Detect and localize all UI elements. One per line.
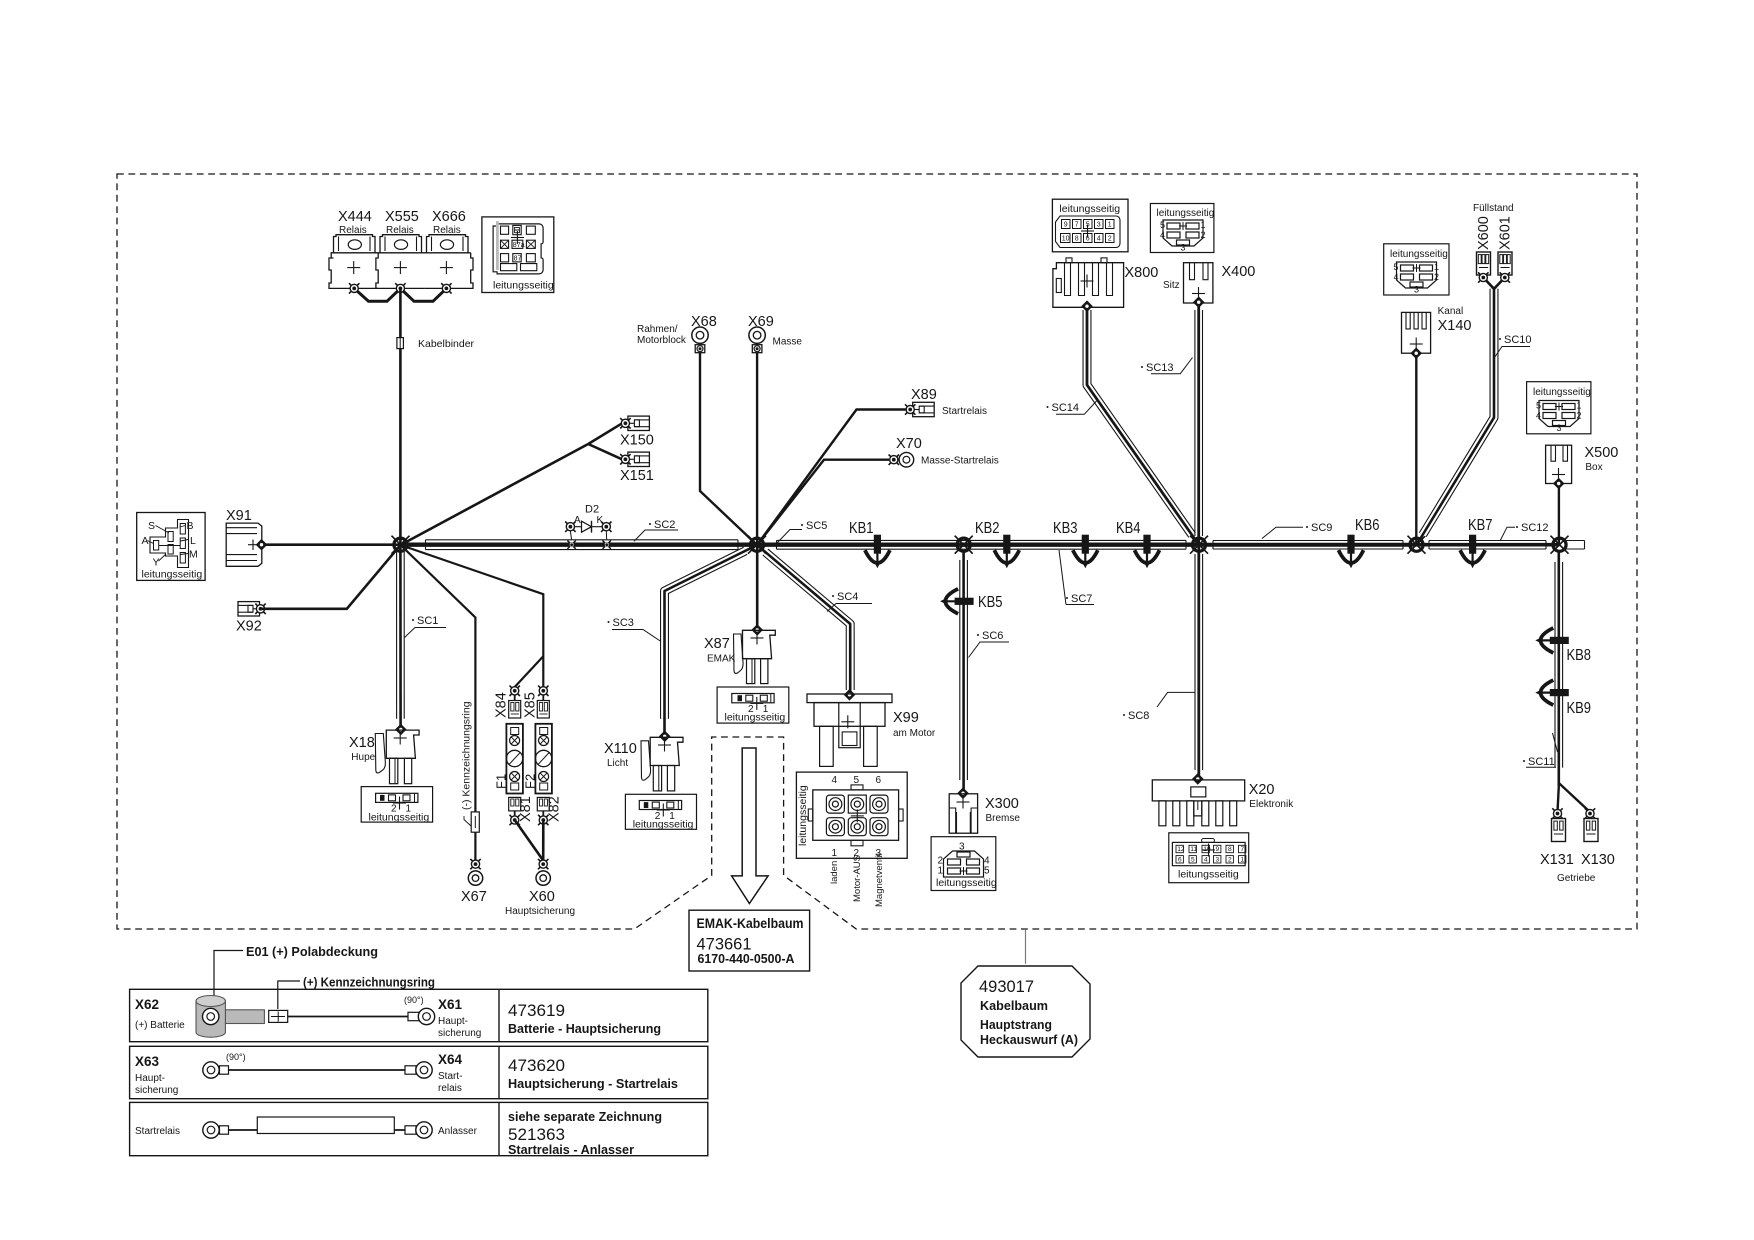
wire J2 to X69 [756, 353, 758, 546]
svg-text:5: 5 [854, 775, 860, 786]
wire X62 to X61 [288, 1016, 411, 1018]
ring terminal Anlasser [405, 1122, 432, 1138]
svg-text:2: 2 [1228, 857, 1232, 864]
EMAK-Kabelbaum label box [689, 910, 810, 971]
table row 1 box [130, 989, 708, 1041]
svg-text:SC11: SC11 [1528, 756, 1555, 768]
label Kennzeichnungsring [278, 976, 435, 1010]
SC4 cable J2 to X99 [757, 545, 850, 694]
svg-text:4: 4 [1160, 230, 1165, 240]
svg-text:9: 9 [1216, 846, 1220, 853]
svg-text:1: 1 [1241, 857, 1245, 864]
svg-text:K: K [597, 515, 604, 526]
kennzeichnungsring sleeve row1 [269, 1010, 288, 1022]
svg-text:X500: X500 [1585, 445, 1619, 461]
svg-text:A: A [574, 515, 581, 526]
SC14 cable X800 to J4 [1087, 306, 1199, 545]
X500 pin box leitungsseitig [1527, 382, 1591, 434]
svg-text:X62: X62 [135, 997, 159, 1012]
wire Y to X601 [1494, 278, 1505, 289]
relay socket X666 [425, 235, 474, 289]
svg-text:KB8: KB8 [1567, 647, 1592, 664]
SC1 cable down from J1 [397, 545, 405, 730]
bolt under X444 [349, 283, 359, 293]
main bus junction1-junction2 outline [426, 540, 739, 550]
SC3 cable J2 to X110 [665, 545, 758, 736]
cable tie KB6 [1339, 535, 1364, 569]
connector X131 [1552, 808, 1562, 818]
connector X140 Kanal [1402, 312, 1431, 353]
svg-text:X87: X87 [704, 636, 730, 652]
svg-text:X99: X99 [893, 710, 919, 726]
svg-text:Anlasser: Anlasser [438, 1126, 478, 1137]
svg-text:sicherung: sicherung [438, 1028, 481, 1039]
connector X18 [375, 724, 419, 784]
connector X81 [509, 797, 521, 816]
wire X140 to J5 [1415, 353, 1417, 545]
svg-text:Startrelais: Startrelais [135, 1126, 180, 1137]
svg-text:SC10: SC10 [1504, 334, 1532, 346]
svg-text:X400: X400 [1222, 264, 1256, 280]
svg-text:Masse-Startrelais: Masse-Startrelais [921, 456, 999, 467]
svg-text:5: 5 [1160, 220, 1165, 230]
svg-text:F2: F2 [523, 774, 538, 789]
svg-text:Startrelais: Startrelais [942, 406, 987, 417]
connector X20 Elektronik [1152, 773, 1244, 826]
svg-text:Start-: Start- [438, 1071, 462, 1082]
svg-text:Box: Box [1585, 462, 1602, 473]
connector X84 [509, 695, 521, 718]
splice mark left of D2 [567, 541, 575, 549]
svg-text:X150: X150 [620, 433, 654, 449]
svg-text:laden: laden [829, 861, 840, 884]
svg-text:KB4: KB4 [1116, 520, 1141, 537]
svg-text:2: 2 [1434, 272, 1439, 282]
svg-text:Sitz: Sitz [1163, 280, 1180, 291]
svg-text:4: 4 [832, 775, 838, 786]
svg-text:X601: X601 [1498, 216, 1514, 250]
svg-text:X68: X68 [691, 314, 717, 330]
bus thick J5-J6 [1417, 543, 1560, 547]
svg-text:X81: X81 [518, 796, 534, 822]
X91 pinout box leitungsseitig [137, 513, 205, 581]
svg-text:5: 5 [1536, 401, 1541, 411]
SC10 label [1495, 334, 1532, 358]
wire to X131 [1558, 786, 1559, 812]
svg-text:S: S [148, 520, 155, 532]
svg-text:X140: X140 [1438, 318, 1472, 334]
SC9 label [1262, 522, 1332, 539]
bus outline stub right of J6 [1567, 541, 1585, 550]
svg-text:X60: X60 [529, 889, 555, 905]
svg-text:3: 3 [1414, 285, 1419, 295]
svg-text:X800: X800 [1125, 265, 1159, 281]
X99 pin box leitungsseitig [796, 772, 907, 859]
X140 pin box leitungsseitig [1384, 244, 1449, 295]
wire X81 to X60 [515, 820, 544, 861]
bus thick J4-J5 [1199, 543, 1417, 547]
svg-text:Motor-AUS: Motor-AUS [852, 855, 863, 902]
ring terminal X64 [405, 1062, 432, 1078]
svg-text:SC3: SC3 [613, 617, 634, 629]
svg-text:X89: X89 [911, 387, 937, 403]
svg-text:(90°): (90°) [404, 995, 424, 1005]
svg-text:X300: X300 [985, 796, 1019, 812]
SC13 label [1141, 358, 1193, 375]
leader line to octagon [1025, 930, 1027, 964]
svg-text:relais: relais [438, 1083, 462, 1094]
cable tie KB9 pointing left [1535, 680, 1569, 705]
svg-text:leitungsseitig: leitungsseitig [142, 569, 203, 581]
cable tie KB3 [1073, 535, 1098, 569]
svg-text:X131: X131 [1540, 852, 1574, 868]
bus J4-J5 outline [1213, 541, 1403, 550]
X20 pin box leitungsseitig [1169, 833, 1249, 883]
ring terminal X60 [538, 859, 548, 869]
svg-text:KB2: KB2 [975, 520, 1000, 537]
wire J1 to X67 [401, 545, 476, 860]
svg-text:X444: X444 [338, 209, 372, 225]
svg-text:Hauptsicherung - Startrelais: Hauptsicherung - Startrelais [508, 1077, 678, 1091]
ring terminal X67 [470, 859, 480, 869]
main bus thick wire J2-J4 [757, 543, 1199, 547]
SC7 label [1059, 550, 1094, 605]
svg-text:E01 (+) Polabdeckung: E01 (+) Polabdeckung [246, 945, 378, 959]
diode D2 [570, 521, 606, 540]
svg-text:3: 3 [1557, 423, 1562, 433]
svg-text:87a: 87a [513, 242, 525, 249]
SC11 label [1523, 733, 1558, 768]
svg-text:leitungsseitig: leitungsseitig [725, 712, 786, 724]
SC3 label [608, 617, 662, 642]
wire J2 to X87 [756, 545, 759, 630]
connector X300 Bremse [949, 787, 977, 833]
svg-text:4: 4 [1536, 411, 1541, 421]
X400 pin box leitungsseitig [1150, 204, 1214, 253]
svg-text:2: 2 [1577, 411, 1582, 421]
svg-text:X151: X151 [620, 468, 654, 484]
fuse holder F1 [506, 724, 523, 794]
connector X89 [913, 402, 935, 416]
svg-text:473620: 473620 [508, 1056, 565, 1075]
svg-text:SC5: SC5 [806, 520, 827, 532]
X110 pin box leitungsseitig [625, 794, 696, 830]
svg-text:B: B [187, 520, 194, 532]
svg-text:Elektronik: Elektronik [1249, 799, 1294, 810]
svg-text:leitungsseitig: leitungsseitig [369, 812, 430, 824]
wire X91 to junction K1 [262, 543, 401, 546]
SC12 label [1500, 522, 1549, 541]
wire to X130 [1559, 783, 1590, 812]
svg-text:X92: X92 [236, 619, 262, 635]
svg-text:11: 11 [1190, 846, 1197, 853]
svg-text:5: 5 [984, 866, 990, 877]
svg-text:SC4: SC4 [837, 591, 858, 603]
Getriebe cable J6 down [1555, 552, 1563, 786]
wire X92 to junction [261, 545, 401, 609]
svg-text:X82: X82 [547, 796, 563, 822]
svg-text:Heckauswurf (A): Heckauswurf (A) [980, 1032, 1078, 1047]
svg-text:Motorblock: Motorblock [637, 335, 687, 346]
svg-text:5: 5 [1191, 857, 1195, 864]
relay socket X444 [329, 235, 378, 289]
label E01 Polabdeckung [214, 945, 378, 996]
svg-text:Startrelais - Anlasser: Startrelais - Anlasser [508, 1143, 634, 1157]
X800 pin box leitungsseitig [1052, 199, 1128, 252]
wire to X150/X151 fork [401, 444, 589, 545]
svg-text:1: 1 [938, 866, 944, 877]
wire J2 to X68 [700, 353, 757, 546]
svg-text:Hauptstrang: Hauptstrang [980, 1017, 1052, 1032]
wire J2 to X89 [757, 410, 906, 546]
svg-text:Batterie - Hauptsicherung: Batterie - Hauptsicherung [508, 1022, 661, 1036]
cable tie KB5 pointing left [940, 589, 974, 614]
svg-text:6: 6 [876, 775, 882, 786]
cable sleeve Startrelais-Anlasser [257, 1117, 394, 1134]
connector X600 [1477, 252, 1491, 275]
svg-text:12: 12 [1177, 846, 1185, 853]
svg-text:2: 2 [1108, 236, 1112, 243]
svg-text:KB1: KB1 [849, 520, 874, 537]
wire J1 to X84/X85 [401, 545, 544, 687]
svg-text:X18: X18 [349, 735, 375, 751]
battery terminal X62 drawing [196, 996, 264, 1038]
svg-text:Kabelbinder: Kabelbinder [418, 338, 475, 350]
svg-text:L: L [190, 535, 196, 547]
svg-text:Getriebe: Getriebe [1557, 873, 1596, 884]
connector X85 [537, 695, 549, 718]
svg-text:Haupt-: Haupt- [438, 1016, 468, 1027]
svg-text:Haupt-: Haupt- [135, 1073, 165, 1084]
connector X151 [628, 452, 650, 466]
svg-text:X91: X91 [226, 508, 252, 524]
junction J1 [392, 536, 410, 554]
svg-text:1: 1 [1108, 222, 1112, 229]
SC14 label [1047, 401, 1097, 414]
cable tie KB1 [865, 535, 890, 569]
kennzeichnungsring sleeve on X67 wire [471, 812, 479, 832]
svg-text:X64: X64 [438, 1052, 463, 1067]
svg-text:521363: 521363 [508, 1125, 565, 1144]
D2 cathode bolt [601, 522, 611, 532]
svg-text:7: 7 [1241, 846, 1245, 853]
svg-text:leitungsseitig: leitungsseitig [633, 819, 694, 831]
svg-text:leitungsseitig: leitungsseitig [1533, 387, 1591, 398]
bus J5-J6 outline [1429, 541, 1546, 550]
SC8 label [1123, 692, 1196, 722]
svg-text:6170-440-0500-A: 6170-440-0500-A [698, 952, 795, 966]
svg-text:9: 9 [1064, 222, 1068, 229]
svg-text:KB3: KB3 [1053, 520, 1078, 537]
svg-text:KB5: KB5 [978, 594, 1003, 611]
svg-text:(-) Kennzeichnungsring: (-) Kennzeichnungsring [461, 701, 473, 810]
SC4 label [827, 591, 872, 612]
svg-text:(90°): (90°) [226, 1052, 246, 1062]
wire relay V right [400, 288, 446, 301]
connector X150 [628, 416, 650, 430]
diamond at X91 [256, 539, 268, 551]
svg-text:87: 87 [514, 256, 522, 263]
svg-text:leitungsseitig: leitungsseitig [1390, 249, 1448, 260]
svg-text:X600: X600 [1476, 216, 1492, 250]
svg-text:X84: X84 [494, 692, 510, 718]
svg-text:SC9: SC9 [1311, 522, 1332, 534]
svg-text:Magnetventil: Magnetventil [874, 853, 885, 907]
ring terminal X69 [749, 327, 765, 353]
cable tie KB7 [1460, 535, 1485, 569]
svg-text:1: 1 [1201, 220, 1206, 230]
svg-text:5: 5 [1394, 262, 1399, 272]
X87 pin box leitungsseitig [717, 687, 789, 724]
svg-text:3: 3 [1097, 222, 1101, 229]
bolt X85 [538, 686, 548, 696]
svg-text:SC14: SC14 [1052, 402, 1080, 414]
svg-text:leitungsseitig: leitungsseitig [1059, 203, 1120, 215]
svg-text:X63: X63 [135, 1054, 160, 1069]
svg-text:X61: X61 [438, 997, 463, 1012]
wire Startrelais to Anlasser [229, 1129, 412, 1131]
wire X500 to J6 [1558, 484, 1560, 546]
wire X82 to X60 [542, 820, 545, 861]
connector X130 [1585, 808, 1595, 818]
splice mark right of D2 [603, 541, 611, 549]
connector X110 [641, 731, 683, 791]
junction J4 [1190, 536, 1208, 554]
connector X82 [537, 797, 549, 816]
junction J6 [1551, 536, 1569, 554]
svg-text:Masse: Masse [773, 337, 803, 348]
relay pinout box leitungsseitig [482, 217, 554, 293]
wire fork to X151 [588, 444, 621, 459]
svg-text:1: 1 [1434, 262, 1439, 272]
junction J3 [955, 536, 973, 554]
main bus thick wire J1-J2 [401, 543, 758, 547]
svg-text:siehe separate Zeichnung: siehe separate Zeichnung [508, 1110, 662, 1124]
svg-text:(+) Kennzeichnungsring: (+) Kennzeichnungsring [303, 976, 435, 990]
table row 2 box [130, 1046, 708, 1098]
bolt X84 [510, 686, 520, 696]
svg-text:X67: X67 [461, 889, 487, 905]
svg-text:Hauptsicherung: Hauptsicherung [505, 906, 575, 917]
wire J2 to X70 [757, 460, 889, 545]
D2 anode bolt [565, 522, 575, 532]
dashed harness border [117, 174, 1637, 929]
wire relay block down to junction [399, 288, 402, 545]
svg-text:EMAK-Kabelbaum: EMAK-Kabelbaum [697, 915, 804, 931]
ring terminal X63 [203, 1062, 229, 1078]
svg-text:sicherung: sicherung [135, 1085, 178, 1096]
SC6 label [969, 630, 1010, 658]
svg-text:X110: X110 [604, 741, 637, 757]
cable J3 to X300 [960, 552, 968, 793]
junction J2 [748, 536, 766, 554]
svg-text:KB7: KB7 [1468, 517, 1493, 534]
cable tie KB2 [994, 535, 1019, 569]
table row 3 box [130, 1102, 708, 1155]
svg-text:4: 4 [1204, 857, 1208, 864]
svg-text:X85: X85 [523, 692, 539, 718]
connector X87 [734, 624, 776, 684]
main bus J2-J4 outline [777, 540, 1187, 549]
wire fork to X150 [588, 424, 621, 444]
svg-text:leitungsseitig: leitungsseitig [936, 877, 997, 889]
svg-text:Y: Y [153, 557, 160, 569]
ring terminal X68 [692, 327, 708, 353]
svg-text:KB9: KB9 [1567, 700, 1592, 717]
connector X91 [226, 523, 262, 566]
svg-text:X70: X70 [896, 436, 922, 452]
svg-text:Hupe: Hupe [351, 752, 375, 763]
junction J5 [1408, 536, 1426, 554]
connector X99 am Motor [807, 689, 892, 766]
bolt under X666 [441, 283, 451, 293]
svg-text:1: 1 [832, 848, 838, 859]
connector X500 Box [1546, 445, 1572, 483]
svg-text:X130: X130 [1581, 852, 1615, 868]
wire Y to X600 [1483, 278, 1494, 289]
svg-text:Kabelbaum: Kabelbaum [980, 998, 1048, 1013]
connector X92 [238, 602, 260, 616]
svg-text:4: 4 [1394, 272, 1399, 282]
cable tie KB8 pointing left [1535, 628, 1569, 653]
ring terminal Startrelais [203, 1122, 229, 1138]
svg-text:SC1: SC1 [417, 615, 438, 627]
big down arrow to EMAK box [732, 748, 769, 904]
svg-text:leitungsseitig: leitungsseitig [797, 785, 809, 846]
svg-text:leitungsseitig: leitungsseitig [1178, 869, 1239, 881]
svg-text:M: M [189, 549, 198, 561]
svg-text:SC13: SC13 [1146, 362, 1174, 374]
svg-text:6: 6 [1178, 857, 1182, 864]
relay socket X555 [376, 235, 425, 289]
svg-text:leitungsseitig: leitungsseitig [1157, 208, 1215, 219]
bolt X92 [255, 604, 265, 614]
X300 pin box leitungsseitig (3 on top) [931, 837, 997, 891]
svg-text:7: 7 [1075, 222, 1079, 229]
svg-text:1: 1 [1577, 401, 1582, 411]
SC5 label [777, 520, 827, 543]
svg-text:3: 3 [1181, 243, 1186, 253]
svg-text:SC6: SC6 [982, 630, 1003, 642]
svg-text:4: 4 [1097, 236, 1101, 243]
svg-text:10: 10 [1062, 236, 1070, 243]
connector X601 [1498, 252, 1512, 275]
svg-text:Kanal: Kanal [1438, 306, 1464, 317]
svg-text:Bremse: Bremse [986, 813, 1021, 824]
fuse holder F2 [535, 724, 552, 794]
X20 cable J4 down [1195, 545, 1203, 779]
svg-text:leitungsseitig: leitungsseitig [493, 280, 554, 292]
svg-text:8: 8 [1075, 236, 1079, 243]
svg-text:2: 2 [1201, 230, 1206, 240]
svg-text:SC8: SC8 [1128, 710, 1149, 722]
svg-text:SC12: SC12 [1521, 522, 1549, 534]
bolt under X555 [395, 283, 405, 293]
SC1 label [405, 615, 447, 638]
SC2 label [634, 519, 678, 541]
ring terminal X61 [408, 1008, 435, 1024]
svg-text:(+) Batterie: (+) Batterie [135, 1020, 185, 1031]
Sitz cable X400 to J4 [1195, 302, 1203, 545]
connector X400 Sitz [1184, 263, 1213, 303]
connector X800 [1053, 258, 1124, 307]
ring terminal X70 [899, 452, 914, 467]
bolt X81 [510, 815, 520, 825]
svg-text:A: A [142, 535, 149, 547]
svg-text:473619: 473619 [508, 1001, 565, 1020]
wire X63 to X64 [229, 1069, 412, 1071]
svg-text:EMAK: EMAK [707, 654, 736, 665]
